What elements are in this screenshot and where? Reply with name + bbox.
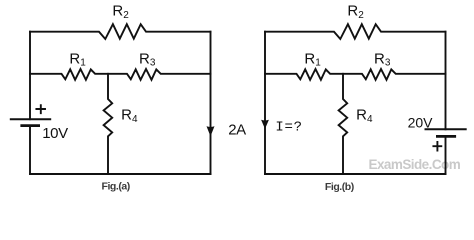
svg-text:I=?: I=? [275,120,302,136]
svg-text:R3: R3 [374,50,391,68]
svg-text:R2: R2 [112,2,129,20]
svg-text:R1: R1 [304,50,321,68]
svg-text:2A: 2A [228,122,246,139]
svg-text:R1: R1 [69,50,86,68]
svg-text:ExamSide.Com: ExamSide.Com [369,157,461,172]
svg-text:R3: R3 [139,50,156,68]
svg-text:R4: R4 [121,107,138,125]
svg-text:10V: 10V [42,125,68,142]
svg-text:R2: R2 [347,2,364,20]
svg-text:R4: R4 [356,107,373,125]
svg-text:Fig.(a): Fig.(a) [102,181,130,193]
svg-text:20V: 20V [408,114,434,130]
svg-text:Fig.(b): Fig.(b) [325,181,354,193]
